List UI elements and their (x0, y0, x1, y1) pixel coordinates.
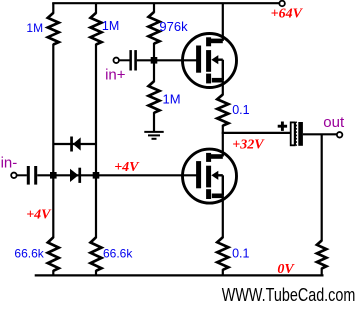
svg-text:1M: 1M (163, 92, 181, 107)
svg-text:+4V: +4V (26, 208, 52, 223)
svg-text:66.6k: 66.6k (14, 246, 44, 260)
svg-text:in-: in- (1, 154, 18, 171)
svg-text:0.1: 0.1 (232, 246, 249, 260)
svg-text:1M: 1M (102, 19, 119, 33)
svg-text:+4V: +4V (114, 160, 140, 175)
svg-text:66.6k: 66.6k (103, 246, 133, 260)
svg-text:+64V: +64V (271, 6, 304, 21)
svg-text:in+: in+ (105, 66, 126, 83)
svg-text:out: out (323, 114, 345, 131)
svg-text:+32V: +32V (232, 137, 265, 152)
svg-text:WWW.TubeCad.com: WWW.TubeCad.com (222, 285, 355, 305)
svg-text:1M: 1M (26, 21, 43, 35)
svg-text:976k: 976k (159, 19, 188, 34)
svg-text:0.1: 0.1 (232, 103, 249, 117)
svg-text:0V: 0V (277, 262, 295, 277)
